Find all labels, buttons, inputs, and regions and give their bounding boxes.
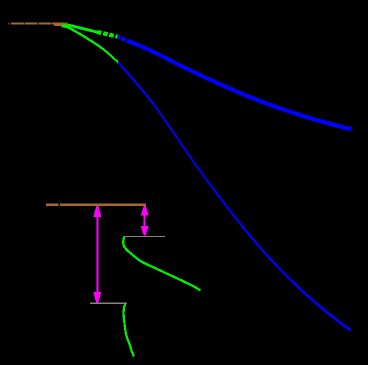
brown dashed horizontal line top left bbox=[9, 22, 68, 24]
inset brown line dash gap bbox=[59, 203, 60, 206]
curve upper green branch solid part bbox=[58, 24, 97, 32]
inset brown horizontal line bbox=[46, 204, 146, 206]
junction green blob bbox=[62, 24, 71, 28]
brown line end lower row bbox=[54, 25, 62, 26]
long arrow bottom head bbox=[93, 292, 101, 303]
curve lower blue bbox=[118, 60, 351, 331]
curve upper green branch dashed tail bbox=[97, 32, 118, 37]
notch gap 2 at start of upper blue bbox=[124, 38, 127, 44]
inset short magenta double arrow shaft bbox=[144, 214, 146, 227]
curve upper blue thick bbox=[118, 34, 352, 130]
curve lower green branch bbox=[58, 22, 118, 63]
notch gap 1 at start of upper blue bbox=[119, 36, 122, 42]
inset green fold curve upper bbox=[123, 237, 200, 291]
gray line lower inset bbox=[90, 302, 127, 304]
long arrow top head bbox=[93, 206, 101, 217]
short arrow bottom head bbox=[141, 226, 149, 236]
short arrow top head bbox=[141, 206, 149, 216]
inset green curve lower bbox=[124, 304, 134, 357]
gray line upper inset bbox=[124, 235, 165, 237]
inset long magenta double arrow shaft bbox=[96, 215, 98, 294]
